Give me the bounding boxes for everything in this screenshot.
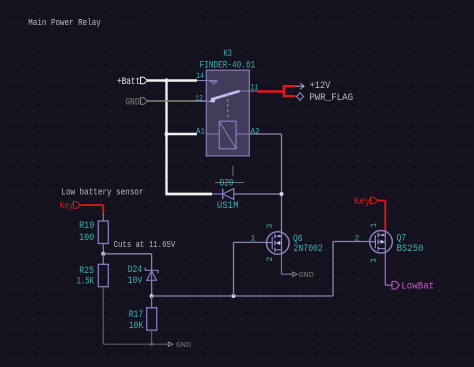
wire GND label to relay pin 12 [147, 100, 206, 102]
svg-text:Q7: Q7 [397, 233, 407, 244]
relay K3 pin A2 [236, 128, 260, 137]
wire to Q7 gate [333, 242, 370, 297]
svg-text:PWR_FLAG: PWR_FLAG [309, 93, 353, 104]
wire red Key to Q7 source [377, 201, 385, 231]
svg-text:2: 2 [355, 235, 360, 244]
power symbol +12V [295, 81, 331, 92]
transistor Q6 [267, 232, 290, 255]
svg-text:100: 100 [79, 233, 94, 244]
svg-text:Low battery sensor: Low battery sensor [61, 186, 143, 197]
svg-text:Cuts at 11.65V: Cuts at 11.65V [114, 239, 176, 250]
svg-text:10V: 10V [128, 276, 143, 287]
diode D20 strike line [215, 182, 244, 184]
junction at A1 branch [165, 132, 169, 136]
relay K3 body [206, 70, 249, 156]
svg-text:10K: 10K [129, 321, 144, 332]
wire branch to relay pin A1 [167, 133, 198, 135]
resistor R17 [147, 296, 157, 344]
hierarchical label LowBat [392, 281, 434, 292]
svg-text:A2: A2 [251, 128, 260, 137]
junction at +Batt branch [164, 78, 168, 82]
svg-text:Key: Key [60, 201, 73, 212]
svg-text:2N7002: 2N7002 [293, 244, 323, 255]
hierarchical label +Batt [117, 77, 147, 88]
hierarchical label Key (left) [60, 201, 80, 212]
svg-text:BS250: BS250 [397, 244, 424, 255]
svg-text:Main Power Relay: Main Power Relay [28, 17, 101, 28]
wire R25 bottom to ground rail [103, 287, 168, 345]
svg-text:2: 2 [266, 257, 275, 262]
zener diode D24 [145, 268, 158, 296]
wire red pin 11 to +12V / PWR_FLAG [258, 85, 295, 97]
svg-text:GND: GND [299, 272, 314, 280]
junction ground rail [150, 342, 154, 346]
svg-text:+12V: +12V [310, 81, 332, 92]
resistor R25 [98, 254, 108, 287]
diode D20 [212, 189, 282, 200]
resistor R19 [98, 213, 108, 254]
wire Q7 drain to LowBat [385, 253, 392, 285]
wire +Batt vertical branch [165, 81, 167, 195]
relay K3 pin 11 [240, 84, 259, 93]
wire sense node horizontal [152, 295, 333, 297]
svg-text:A1: A1 [196, 128, 205, 137]
svg-text:3: 3 [266, 224, 275, 229]
relay K3 switch lever [209, 91, 240, 103]
relay K3 pin 14 [196, 72, 217, 84]
wire Q6 source to GND [282, 254, 293, 274]
svg-text:+Batt: +Batt [117, 77, 140, 88]
svg-text:1.5K: 1.5K [77, 276, 95, 287]
svg-text:3: 3 [370, 258, 379, 263]
wire red Key to R19 [80, 205, 103, 213]
svg-text:D24: D24 [128, 265, 143, 276]
wire to Q6 gate [234, 242, 267, 296]
relay K3 pin 12 [195, 95, 212, 104]
relay K3 bottom stub line [232, 166, 234, 176]
transistor Q7 [370, 231, 393, 254]
wire relay A2 down to Q6 drain [250, 134, 282, 232]
junction R19/R25 [101, 252, 105, 256]
wire junction to zener D24 [103, 254, 151, 270]
svg-text:11: 11 [251, 84, 259, 93]
svg-text:R19: R19 [79, 221, 94, 232]
relay K3 coil box [219, 121, 236, 149]
svg-text:14: 14 [196, 72, 204, 81]
svg-text:12: 12 [195, 95, 203, 104]
svg-text:1: 1 [370, 223, 379, 228]
wire horizontal to diode D20 [165, 193, 212, 196]
svg-text:GND: GND [125, 97, 140, 108]
svg-text:1: 1 [251, 235, 256, 244]
hierarchical label Key (right) [354, 197, 377, 208]
svg-text:LowBat: LowBat [401, 282, 434, 293]
junction Q6 gate branch [232, 294, 236, 298]
svg-text:Key: Key [354, 197, 371, 208]
junction diode/Q6 node [280, 192, 284, 196]
power symbol PWR_FLAG [297, 93, 354, 104]
svg-text:US1M: US1M [217, 201, 239, 212]
hierarchical label GND [125, 97, 147, 108]
power symbol GND (Q6) [293, 272, 314, 280]
svg-text:K3: K3 [223, 49, 232, 60]
power symbol GND (bottom) [168, 342, 191, 350]
wire +Batt horizontal to relay pin 14 [147, 79, 197, 81]
svg-text:D20: D20 [220, 179, 234, 190]
junction zener/R17 node [150, 294, 154, 298]
relay K3 dashed actuator line [227, 94, 229, 121]
svg-text:GND: GND [176, 342, 191, 350]
svg-text:R17: R17 [129, 310, 144, 321]
relay K3 pin A1 [196, 128, 219, 137]
